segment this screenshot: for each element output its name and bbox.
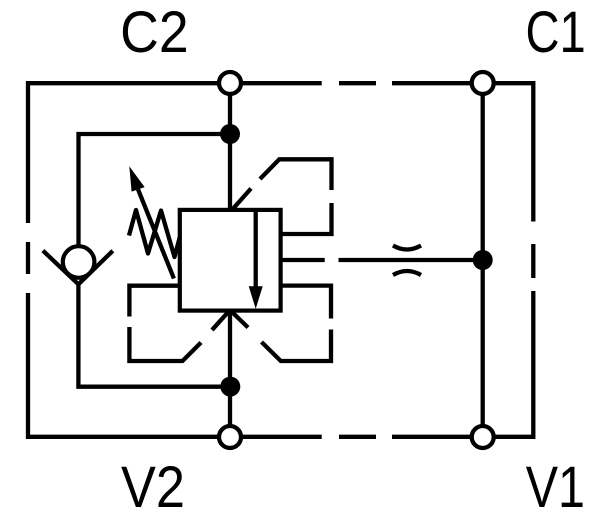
- pilot line bottom-right: diagonal from valve bottom (solid part): [231, 311, 249, 328]
- valve main envelope box: [180, 210, 281, 311]
- pilot line top-right: dash up to corner and down: [260, 159, 332, 190]
- check valve seat: [43, 251, 113, 285]
- orifice upper arc: [393, 246, 421, 250]
- orifice lower arc: [393, 271, 421, 275]
- pilot line bottom-right: dash to corner and up: [262, 330, 332, 362]
- port V1: [472, 426, 494, 448]
- wire top border left solid segment: [26, 81, 322, 85]
- junction dot at V2 branch: [220, 377, 240, 397]
- pilot line top-right: diagonal from valve top (solid part): [232, 189, 252, 211]
- adjustability arrow head: [129, 166, 144, 191]
- wire bottom border right solid segment: [392, 435, 535, 439]
- wire valve right port to orifice (solid part): [281, 258, 325, 262]
- valve internal flow arrow stem: [254, 210, 258, 290]
- wire top border right solid segment: [392, 81, 535, 85]
- wire valve bottom down through junction to V2 port: [228, 310, 232, 438]
- wire C1 port down through junction to V1 port: [481, 83, 485, 437]
- wire left border upper solid segment: [26, 81, 30, 223]
- pilot line bottom-left: upper dash into valve left side: [129, 286, 179, 317]
- wire top border middle dash: [339, 81, 376, 85]
- svg-text:V2: V2: [121, 455, 185, 519]
- wire right border lower solid segment: [531, 291, 535, 439]
- wire orifice to C1-V1 line: [339, 258, 483, 262]
- svg-text:V1: V1: [526, 455, 585, 519]
- pilot line bottom-right: upper dash into valve right side: [281, 286, 331, 319]
- pilot line bottom-left: dash to corner and up: [129, 327, 201, 361]
- wire check valve bottom to lower junction: [78, 283, 230, 387]
- check valve ball: [63, 246, 95, 278]
- adjustability arrow shaft: [138, 189, 174, 278]
- wire right border middle dash: [531, 244, 535, 278]
- port C1: [472, 72, 494, 94]
- spring (zigzag) on valve left: [129, 210, 180, 257]
- pilot line top-right: lower dash into valve right side: [281, 203, 332, 234]
- wire bottom border left solid segment: [26, 435, 322, 439]
- pilot line bottom-left: diagonal from valve bottom (solid part): [212, 311, 230, 330]
- wire left border middle dash: [26, 242, 30, 274]
- valve internal flow arrow head: [249, 286, 263, 308]
- svg-text:C2: C2: [120, 0, 189, 65]
- wire C2 port down to junction and valve top: [228, 83, 232, 211]
- wire bottom border middle dash: [339, 435, 376, 439]
- port C2: [219, 72, 241, 94]
- svg-text:C1: C1: [526, 0, 586, 65]
- junction dot at C1-V1 line: [473, 250, 493, 270]
- junction dot at C2 branch: [220, 124, 240, 144]
- wire left border lower solid segment: [26, 293, 30, 439]
- wire right border upper solid segment: [531, 81, 535, 221]
- wire junction to check valve branch top: [79, 134, 231, 247]
- port V2: [219, 426, 241, 448]
